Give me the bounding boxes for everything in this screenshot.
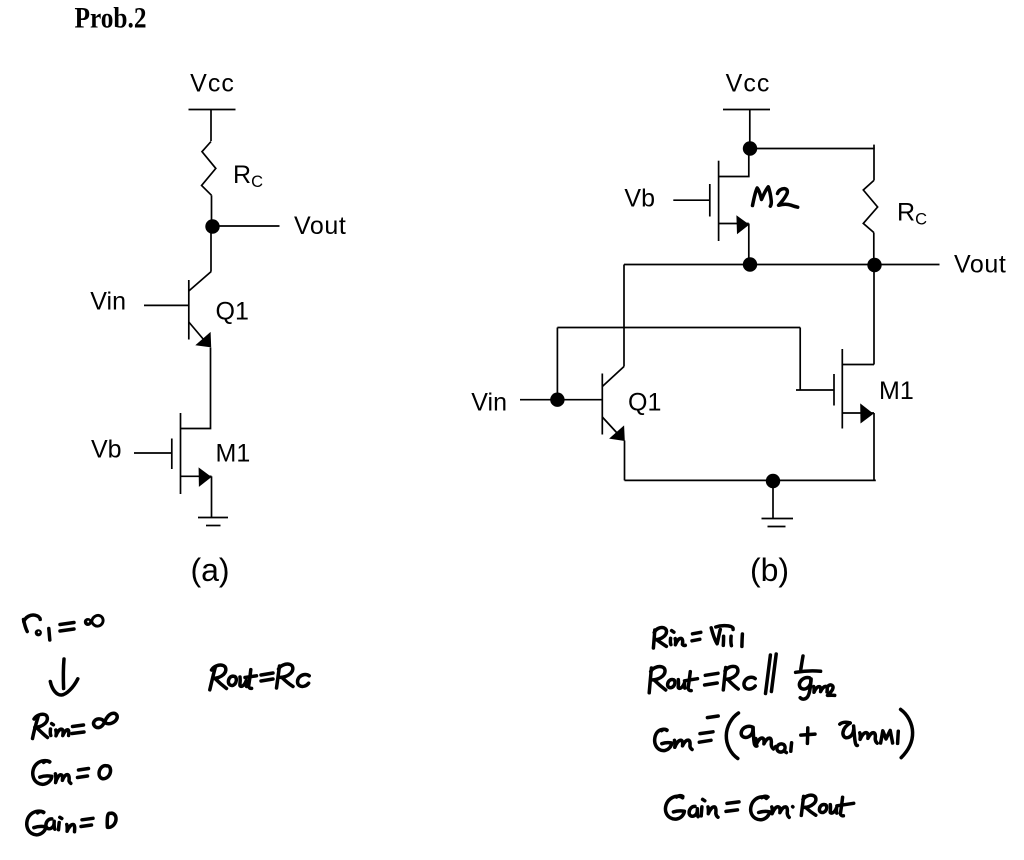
handwritten Gain = 0 bbox=[27, 811, 116, 835]
wire gate link down to M1 gate (b) bbox=[799, 328, 801, 391]
svg-text:Q1: Q1 bbox=[628, 389, 661, 417]
handwritten Gain = Gm . Rout (b) bbox=[665, 795, 853, 820]
node Vin junction dot (b) bbox=[550, 393, 564, 407]
Vcc supply bar (b) bbox=[723, 109, 770, 111]
svg-text:Vb: Vb bbox=[91, 436, 122, 464]
svg-text:Vout: Vout bbox=[294, 212, 346, 240]
ground (b) bbox=[762, 519, 794, 527]
ground (a) bbox=[198, 518, 228, 526]
node ground junction dot (b) bbox=[766, 474, 780, 488]
svg-text:(b): (b) bbox=[750, 552, 789, 588]
handwritten Rin = infinity bbox=[33, 713, 118, 738]
wire Vout stub (a) bbox=[220, 225, 280, 227]
svg-text:Q1: Q1 bbox=[216, 298, 249, 326]
wire Vout to Q1 collector (b) bbox=[623, 265, 625, 367]
svg-text:M1: M1 bbox=[879, 377, 914, 405]
svg-text:Prob.2: Prob.2 bbox=[75, 3, 147, 35]
wire M1 drain to Vout node (b) bbox=[873, 265, 875, 365]
handwritten Gm = -(gmQ1 + gmM1) (b) bbox=[655, 709, 913, 758]
wire M1 source down (b) bbox=[873, 413, 875, 480]
wire Vin node up to gate link (b) bbox=[556, 328, 558, 400]
wire node to Q1 collector (a) bbox=[210, 231, 212, 272]
handwritten Rin = r pi 1 (b) bbox=[653, 626, 742, 648]
node Vout junction dot M2 source (b) bbox=[743, 257, 757, 271]
handwritten implies arrow bbox=[50, 659, 78, 695]
wire ground stem (b) bbox=[772, 481, 774, 519]
wire Vb to M1 gate (a) bbox=[134, 452, 172, 454]
handwritten Gm = 0 bbox=[33, 761, 111, 785]
svg-text:Vin: Vin bbox=[90, 288, 126, 316]
transistor M1 (a) NMOS bbox=[172, 413, 212, 494]
label M2 handwritten (b) bbox=[753, 187, 798, 207]
svg-text:M1: M1 bbox=[216, 440, 251, 468]
wire Vin to Q1 base (a) bbox=[144, 304, 189, 306]
node Vcc junction dot (b) bbox=[743, 141, 757, 155]
wire Vout rail (b) bbox=[624, 264, 940, 266]
transistor Q1 (b) NPN bbox=[602, 367, 625, 442]
wire resistor to Vout node (b) bbox=[873, 233, 875, 266]
transistor M2 (b) bbox=[710, 153, 750, 260]
transistor M1 (b) NMOS bbox=[834, 349, 874, 429]
wire Q1 emitter down (b) bbox=[624, 441, 626, 481]
node Vout junction dot RC (b) bbox=[867, 258, 881, 272]
handwritten Rout = Rc parallel 1 over gm2 (b) bbox=[649, 654, 835, 699]
resistor RC (a) bbox=[202, 142, 216, 196]
wire resistor to node (a) bbox=[211, 195, 213, 221]
svg-text:Vcc: Vcc bbox=[190, 70, 235, 98]
resistor RC (b) bbox=[863, 181, 877, 233]
wire Vcc to resistor (a) bbox=[210, 110, 212, 142]
wire Vb to M2 gate (b) bbox=[673, 199, 710, 201]
wire Vcc to node (b) bbox=[749, 110, 751, 145]
wire Q1 emitter to M1 drain (a) bbox=[181, 348, 211, 429]
svg-text:Vb: Vb bbox=[624, 185, 655, 213]
wire M1 source to ground (a) bbox=[211, 476, 213, 517]
svg-text:Vout: Vout bbox=[954, 251, 1006, 279]
transistor Q1 (a) NPN bbox=[189, 272, 211, 348]
Vcc supply bar (a) bbox=[189, 109, 236, 111]
svg-text:(a): (a) bbox=[190, 552, 229, 588]
handwritten ro1 = infinity bbox=[24, 615, 104, 640]
wire M1 gate lead (b) bbox=[796, 389, 834, 391]
wire bottom rail (b) bbox=[625, 479, 876, 481]
svg-text:Vin: Vin bbox=[471, 389, 507, 417]
node Vout junction dot (a) bbox=[205, 219, 219, 233]
svg-text:Vcc: Vcc bbox=[726, 70, 771, 98]
handwritten Rout = Rc bbox=[210, 664, 309, 690]
wire Vin to Q1 base (b) bbox=[520, 399, 602, 401]
wire gate link horizontal (b) bbox=[557, 327, 800, 329]
wire node to resistor top (b) bbox=[755, 149, 874, 181]
